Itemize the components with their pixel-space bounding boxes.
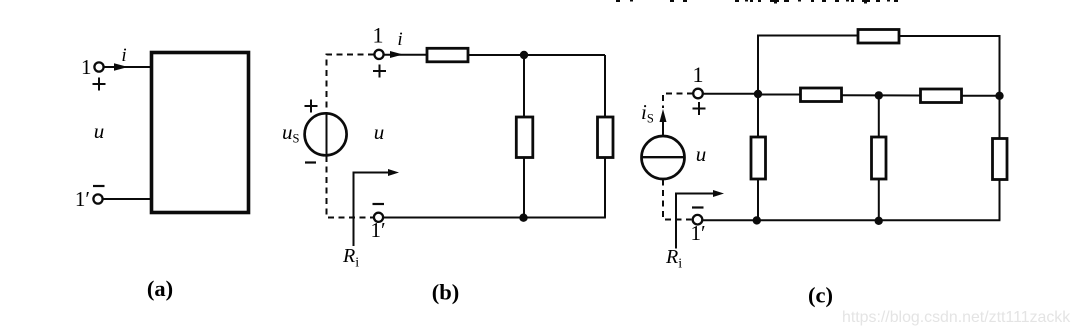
- iS arrow on lead: [660, 109, 667, 136]
- cropped text fragments along top edge: [616, 0, 898, 4]
- svg-text:u: u: [696, 142, 707, 166]
- plus sign: [93, 78, 106, 91]
- svg-text:https://blog.csdn.net/ztt111za: https://blog.csdn.net/ztt111zackk: [842, 309, 1070, 326]
- svg-text:1′: 1′: [370, 218, 385, 242]
- svg-text:1′: 1′: [75, 187, 90, 211]
- node dot bottom: [519, 214, 527, 222]
- voltage source uS: [305, 113, 347, 155]
- dashed lead top: [327, 55, 375, 114]
- wire left branch lower: [757, 179, 759, 221]
- terminal 1: [374, 50, 383, 59]
- dashed lead top: [663, 94, 693, 109]
- node dot bottom middle: [875, 217, 883, 225]
- resistor middle-right horizontal: [921, 89, 962, 103]
- wire terminal 1 to node A: [703, 93, 758, 95]
- node C dot: [995, 92, 1003, 100]
- minus sign: [93, 185, 105, 187]
- current arrow i: [114, 63, 128, 71]
- wire right branch upper: [999, 96, 1001, 139]
- Ri input-resistance arrow: [676, 190, 724, 249]
- node B dot: [875, 91, 883, 99]
- wire bottom: [383, 217, 606, 219]
- svg-text:(b): (b): [432, 280, 460, 305]
- current source iS: [641, 136, 685, 179]
- wire right vertical upper: [604, 55, 606, 117]
- wire middle branch lower: [878, 179, 880, 221]
- svg-text:uS: uS: [282, 120, 300, 146]
- wire terminal 1' to box: [103, 198, 153, 200]
- minus over terminal 1': [692, 206, 704, 208]
- resistor left vertical: [751, 137, 766, 179]
- wire middle vertical upper: [523, 55, 525, 117]
- wire middle branch upper: [878, 95, 880, 137]
- resistor R2 vertical: [516, 117, 533, 158]
- svg-text:1′: 1′: [690, 221, 705, 245]
- resistor R1 horizontal: [427, 48, 468, 62]
- svg-text:Ri: Ri: [665, 246, 682, 272]
- resistor middle-left horizontal: [801, 88, 842, 102]
- svg-text:1: 1: [81, 55, 92, 79]
- wire top loop left segment: [757, 35, 858, 37]
- resistor R3 vertical: [598, 117, 614, 158]
- wire left vertical up to top loop: [757, 36, 759, 95]
- svg-text:u: u: [94, 119, 105, 143]
- plus sign source: [305, 100, 318, 113]
- node A dot: [754, 90, 762, 98]
- svg-text:(a): (a): [147, 276, 173, 301]
- current arrow i: [390, 51, 403, 58]
- terminal 1': [93, 194, 102, 203]
- resistor middle vertical: [872, 137, 887, 179]
- terminal 1: [693, 89, 703, 99]
- terminal 1': [693, 215, 703, 225]
- svg-text:(c): (c): [808, 283, 833, 308]
- dashed lead bottom: [663, 180, 692, 220]
- svg-text:1: 1: [693, 62, 704, 87]
- wire middle center segment: [842, 94, 921, 96]
- node dot top: [520, 51, 528, 59]
- wire left branch upper: [757, 94, 759, 137]
- wire top loop right segment: [899, 36, 1000, 96]
- wire middle right segment: [962, 95, 1000, 97]
- svg-text:1: 1: [373, 23, 384, 48]
- plus under terminal: [693, 102, 706, 115]
- wire middle left segment: [758, 94, 801, 96]
- svg-text:Ri: Ri: [342, 245, 359, 271]
- svg-text:i: i: [397, 29, 402, 50]
- wire bottom: [703, 219, 1001, 221]
- wire top left segment: [384, 54, 428, 56]
- minus sign source: [305, 161, 316, 163]
- wire top right segment: [468, 54, 605, 56]
- svg-text:i: i: [121, 45, 126, 66]
- network box N: [152, 53, 249, 213]
- node dot bottom left: [753, 216, 761, 224]
- resistor right vertical: [993, 139, 1008, 180]
- wire right branch lower: [999, 180, 1001, 221]
- wire terminal 1 to box: [104, 66, 153, 68]
- Ri input-resistance arrow: [354, 169, 400, 246]
- wire middle vertical lower: [523, 158, 525, 218]
- terminal 1': [374, 213, 383, 222]
- svg-text:u: u: [374, 120, 385, 144]
- resistor top horizontal: [858, 30, 899, 44]
- dashed lead bottom: [327, 156, 374, 218]
- terminal 1: [94, 62, 103, 71]
- svg-text:iS: iS: [641, 100, 654, 126]
- wire right vertical lower: [604, 158, 606, 218]
- minus over terminal 1': [373, 203, 385, 205]
- plus under terminal: [373, 65, 386, 78]
